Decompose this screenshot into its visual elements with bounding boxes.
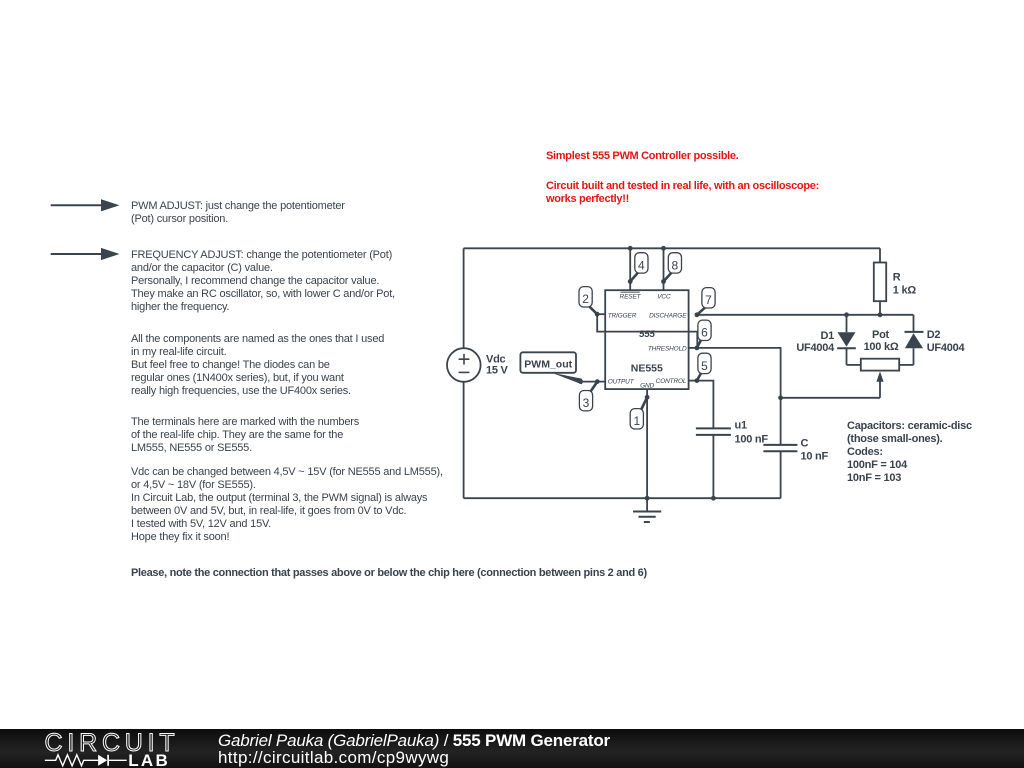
svg-text:TRIGGER: TRIGGER — [608, 313, 637, 320]
svg-text:D2: D2 — [927, 329, 941, 341]
ground — [633, 498, 661, 522]
svg-text:5: 5 — [701, 359, 708, 373]
svg-text:CONTROL: CONTROL — [656, 378, 687, 385]
svg-text:Pot: Pot — [872, 329, 890, 341]
svg-text:3: 3 — [583, 396, 590, 410]
annotation text: Vdc range note — [131, 466, 443, 544]
annotation arrow 1 — [51, 199, 120, 211]
wire left vertical (Vdc branch) — [463, 248, 465, 498]
node R bottom junction — [878, 312, 883, 317]
svg-text:GND: GND — [640, 383, 654, 390]
svg-text:u1: u1 — [735, 420, 747, 432]
chip pin label RESET with overline — [620, 292, 642, 300]
pin callout 2 — [579, 287, 597, 315]
red title text — [546, 150, 738, 163]
capacitor C 10nF — [763, 445, 797, 498]
wire discharge net — [697, 314, 914, 316]
wire control pin5 net — [689, 381, 714, 429]
svg-text:DISCHARGE: DISCHARGE — [649, 313, 687, 320]
node u1 bottom rail junction — [711, 496, 716, 501]
svg-text:7: 7 — [705, 293, 712, 307]
node wiper junction — [778, 395, 783, 400]
svg-text:R: R — [893, 271, 901, 283]
wire trigger pin2 to threshold — [597, 314, 697, 348]
pin callout 4 — [630, 253, 648, 282]
annotation text: bold connection note — [131, 567, 647, 580]
op-amp chip body NE555 U1 — [605, 290, 688, 389]
node discharge pin — [695, 312, 700, 317]
resistor R — [874, 248, 886, 315]
wire reset drop pin4 — [629, 248, 631, 290]
svg-text:10 nF: 10 nF — [801, 450, 829, 462]
wire wiper net — [781, 397, 880, 399]
footer title line — [218, 731, 610, 751]
node gnd pin terminal — [645, 395, 650, 400]
potentiometer Pot body — [847, 359, 914, 371]
annotation arrow 2 — [51, 248, 120, 260]
logo CIRCUIT LAB — [0, 728, 200, 768]
pin callout 3 — [579, 382, 597, 411]
diode D2 — [905, 315, 924, 365]
svg-text:THRESHOLD: THRESHOLD — [648, 345, 687, 352]
pin callout 6 — [697, 320, 711, 348]
node control pin terminal — [695, 378, 700, 383]
capacitors codes note — [847, 420, 972, 485]
potentiometer wiper arrow — [876, 371, 883, 397]
pin callout 1 — [630, 397, 647, 429]
wire top rail — [464, 247, 880, 249]
red tested text — [546, 180, 819, 206]
svg-text:100 kΩ: 100 kΩ — [864, 341, 899, 353]
footer bar — [0, 729, 1024, 768]
svg-text:1: 1 — [633, 414, 640, 428]
svg-text:6: 6 — [701, 326, 708, 340]
svg-text:C: C — [801, 438, 809, 450]
wire bottom rail — [464, 497, 781, 499]
svg-text:RESET: RESET — [620, 293, 642, 300]
svg-text:NE555: NE555 — [631, 362, 663, 374]
node reset rail junction — [628, 246, 633, 251]
wire vcc drop pin8 — [663, 248, 665, 290]
logo resistor-diode squiggle — [44, 753, 134, 768]
node PWM_out flag terminal — [578, 379, 583, 384]
annotation text: components naming — [131, 333, 384, 398]
pin callout 8 — [664, 253, 682, 282]
wire gnd pin1 — [646, 389, 648, 498]
svg-text:OUTPUT: OUTPUT — [608, 379, 635, 386]
node reset pin terminal — [628, 279, 633, 284]
pin callout 5 — [697, 353, 711, 380]
node D1 top junction — [844, 312, 849, 317]
annotation text: frequency adjust — [131, 249, 395, 314]
svg-text:1 kΩ: 1 kΩ — [893, 284, 917, 296]
annotation text: PWM adjust — [131, 200, 345, 226]
svg-text:LAB: LAB — [128, 751, 170, 768]
node vcc rail junction — [661, 246, 666, 251]
node output pin terminal — [595, 379, 600, 384]
svg-text:555: 555 — [639, 329, 656, 340]
svg-text:100 nF: 100 nF — [735, 434, 769, 446]
diode D1 — [837, 315, 856, 365]
svg-text:UF4004: UF4004 — [796, 342, 835, 354]
capacitor u1 100nF — [696, 428, 731, 498]
svg-text:VCC: VCC — [657, 293, 671, 300]
node trigger pin terminal — [595, 312, 600, 317]
footer url line — [218, 748, 449, 768]
pin callout 7 — [697, 288, 715, 315]
svg-text:15 V: 15 V — [486, 364, 509, 376]
node gnd rail junction — [645, 496, 650, 501]
annotation text: terminals note — [131, 416, 359, 455]
wire output pin3 — [581, 381, 606, 383]
net flag PWM_out — [520, 352, 582, 384]
wire threshold net — [689, 348, 781, 445]
svg-text:2: 2 — [582, 292, 589, 306]
voltage source V1 Vdc — [447, 348, 481, 382]
svg-text:4: 4 — [638, 258, 645, 272]
svg-text:UF4004: UF4004 — [927, 342, 966, 354]
svg-text:PWM_out: PWM_out — [524, 359, 572, 371]
svg-text:D1: D1 — [820, 330, 834, 342]
node vcc pin terminal — [661, 279, 666, 284]
node threshold pin terminal — [695, 346, 700, 351]
svg-text:8: 8 — [672, 258, 679, 272]
